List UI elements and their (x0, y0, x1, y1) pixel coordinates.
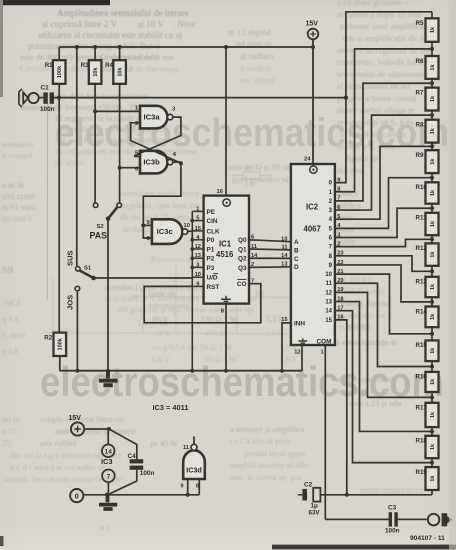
node ladder junction (430, 365, 434, 369)
15V supply terminal top (308, 29, 319, 40)
svg-text:3: 3 (196, 262, 199, 268)
svg-text:и 1: и 1 (100, 523, 111, 532)
resistor R2 100k (54, 333, 67, 356)
wire ladder link R5-R6 (431, 42, 433, 56)
node junction signal/ch0 riser (344, 96, 348, 100)
svg-text:10: 10 (195, 272, 201, 278)
svg-text:ʞ ∂,ट: ʞ ∂,ट (2, 347, 19, 356)
node ladder junction (430, 206, 434, 210)
wire C4 bottom to 0V (110, 470, 137, 494)
node ladder junction (430, 300, 434, 304)
IC1 ground symbol pin 8 (221, 296, 231, 302)
svg-text:S2: S2 (97, 224, 104, 230)
node ground rail junction (106, 369, 110, 373)
node latch output (179, 161, 183, 165)
wire to C4 top (109, 429, 137, 459)
wire jack to C1 (39, 97, 44, 99)
wire PE/CIN/P0-P3 tie to ground (191, 211, 193, 370)
wire rail to S1 SUS contact (76, 47, 78, 267)
wire R19 bottom lead (431, 490, 433, 495)
IC3 pin 7 power circle (102, 470, 115, 483)
svg-text:C4: C4 (128, 453, 137, 460)
svg-text:P0: P0 (207, 237, 215, 244)
svg-text:refied rezulta in cu: refied rezulta in cu (360, 486, 424, 495)
svg-text:1k: 1k (430, 64, 436, 71)
svg-text:R9: R9 (416, 152, 424, 159)
wire ladder link R8-R9 (431, 143, 433, 151)
output jack (428, 514, 440, 526)
wire CO to RST loop (144, 284, 261, 323)
svg-text:R6: R6 (416, 58, 424, 65)
svg-text:R10: R10 (416, 184, 428, 191)
svg-text:JOS: JOS (66, 295, 75, 310)
node ladder junction (430, 47, 434, 51)
capacitor C1 100n (43, 92, 47, 103)
node ground rail junction (224, 369, 228, 373)
svg-text:15: 15 (325, 318, 332, 324)
node ch15/C2/R19 (345, 493, 349, 497)
wire IC2 ch5 to ladder junction (335, 178, 432, 229)
IC1 left pin stubs, numbers and names (192, 210, 203, 212)
svg-text:IC3a: IC3a (144, 113, 161, 122)
svg-text:qɒ tnuz b: qɒ tnuz b (2, 214, 33, 223)
wire Q output to IC2 select (249, 240, 291, 242)
wire ladder link R7-R8 (431, 111, 433, 120)
svg-text:-s-ard, din csc: -s-ard, din csc (340, 311, 387, 320)
svg-text:13: 13 (195, 253, 201, 259)
resistor R15 (426, 340, 439, 361)
wire R2 to ground rail (59, 356, 61, 371)
svg-text:cu C4 alte să prim: cu C4 alte să prim (230, 437, 291, 446)
svg-text:R15: R15 (416, 342, 428, 349)
svg-text:C2: C2 (304, 482, 313, 489)
svg-text:R2: R2 (44, 334, 52, 341)
node preset tie (190, 238, 194, 242)
svg-text:24: 24 (304, 157, 311, 163)
ground symbol (bottom block) (99, 495, 117, 509)
svg-text:11: 11 (183, 445, 190, 451)
wire ladder link R15-R16 (431, 361, 433, 372)
resistor R5 (426, 18, 439, 42)
svg-text:PAS: PAS (90, 231, 108, 241)
svg-text:R5: R5 (416, 20, 424, 27)
svg-text:R4: R4 (105, 62, 113, 69)
resistor R16 (426, 372, 439, 392)
svg-text:14: 14 (325, 309, 332, 315)
svg-text:S1: S1 (84, 265, 92, 271)
wire IC2 pin12 to ground rail (301, 345, 303, 371)
svg-text:ƆʞƐ,Ɛ: ƆʞƐ,Ɛ (2, 298, 21, 307)
wire C3 to output jack (398, 518, 427, 520)
svg-text:1k: 1k (430, 251, 436, 258)
node ladder junction (430, 461, 434, 465)
wire R1 bottom lead (58, 84, 60, 98)
node rail/15V terminal (311, 45, 315, 49)
wire COM to C3 (325, 518, 388, 520)
wire IC2 ch4 to ladder junction (335, 146, 432, 219)
node ground rail junction (75, 369, 79, 373)
svg-text:10k: 10k (93, 66, 99, 76)
svg-text:IC3c: IC3c (157, 227, 173, 236)
svg-text:1k: 1k (430, 347, 436, 354)
wire ladder link R16-R17 (431, 392, 433, 403)
svg-text:R1: R1 (45, 62, 53, 69)
svg-text:Q3: Q3 (238, 265, 247, 272)
svg-text:63V: 63V (309, 510, 321, 517)
svg-text:1k: 1k (430, 220, 436, 227)
node ladder junction (430, 113, 434, 117)
node preset tie (190, 219, 194, 223)
svg-text:14: 14 (281, 253, 288, 259)
wire ladder link R10-R11 (431, 204, 433, 213)
svg-text:Circuitul este der mv: Circuitul este der mv (100, 52, 175, 62)
svg-text:1: 1 (196, 206, 199, 212)
wire IC3b output (173, 161, 181, 163)
IC2 power marker (310, 166, 317, 173)
svg-text:R12: R12 (416, 245, 428, 252)
wire S2 pivot to ground rail (107, 219, 109, 371)
svg-text:9: 9 (196, 281, 199, 287)
wire 15V supply to IC2 pin24 (312, 40, 314, 165)
IC U1: IC1 4516 body (204, 196, 249, 304)
svg-text:R14: R14 (416, 308, 428, 315)
svg-text:p r, d l ansă ă at cei: p r, d l ansă ă at cei audio-ar (10, 463, 105, 472)
svg-text:și cuprinsă între 2 V: și cuprinsă între 2 V (42, 20, 118, 30)
resistor R7 (426, 88, 439, 111)
wire IC2 ch12 to ladder junction (335, 292, 432, 397)
svg-text:PE: PE (207, 209, 216, 216)
svg-text:ru prindă, cum luni, po: ru prindă, cum luni, po (120, 200, 199, 210)
svg-text:12: 12 (325, 290, 332, 296)
svg-text:10k: 10k (117, 66, 123, 76)
svg-text:100n: 100n (140, 470, 155, 477)
svg-text:IC3d: IC3d (186, 466, 202, 475)
svg-text:este o amplificație de A: este o amplificație de A (342, 33, 426, 43)
wire ladder link R12-R13 (431, 266, 433, 277)
svg-text:1k: 1k (430, 127, 436, 134)
svg-text:R8: R8 (416, 122, 424, 129)
ghost table grid lines (46, 266, 312, 334)
svg-text:vece de Ta și D5 iar: vece de Ta și D5 iar (228, 163, 292, 172)
svg-text:R3: R3 (81, 62, 89, 69)
wire ch0 riser to ladder top (335, 12, 432, 183)
svg-text:IC3b: IC3b (143, 158, 160, 167)
svg-text:. Nive: . Nive (173, 19, 195, 29)
node preset tie (190, 266, 194, 270)
svg-text:2: 2 (135, 121, 138, 127)
wire IC3d pin8 to 0V (198, 479, 200, 495)
svg-text:C: C (294, 256, 299, 263)
svg-text:SЯ: SЯ (2, 266, 14, 276)
svg-text:atenuat un regulator de ten: atenuat un regulator de ten (337, 45, 431, 55)
svg-text:simplu conectat întru-un: simplu conectat întru-un (40, 414, 125, 424)
svg-text:12: 12 (294, 350, 300, 356)
IC3 pin 14 power circle (107, 429, 109, 445)
svg-text:P3: P3 (207, 265, 215, 272)
svg-text:9: 9 (181, 484, 184, 490)
svg-text:1k: 1k (430, 189, 436, 196)
resistor R9 (426, 150, 439, 173)
resistor R3 10k (89, 60, 102, 84)
svg-text:și 10 V: și 10 V (138, 19, 164, 29)
svg-text:Tensiunea de alim: Tensiunea de alim (150, 255, 211, 264)
svg-text:15V: 15V (69, 415, 82, 422)
wire IC2 ch3 to ladder junction (335, 115, 432, 210)
node 15V branch (107, 427, 111, 431)
svg-text:100n: 100n (385, 528, 400, 535)
wire IC2 ch14 to ladder junction (335, 311, 432, 463)
IC U2: IC2 4067 body (291, 164, 335, 345)
svg-text:1k: 1k (430, 95, 436, 102)
svg-text:Q1: Q1 (238, 246, 247, 253)
svg-text:a cu mare greutate –: a cu mare greutate – (337, 0, 409, 7)
resistor R4 10k (113, 60, 126, 84)
wire ladder link R9-R10 (431, 173, 433, 182)
svg-text:1k: 1k (430, 443, 436, 450)
svg-text:C1: C1 (41, 85, 50, 92)
svg-text:pe 45 W: pe 45 W (150, 439, 178, 448)
wire Q output to IC2 select (249, 257, 291, 259)
svg-text:toimisa lo: toimisa lo (2, 140, 33, 149)
wire IC2 ch13 to ladder junction (335, 302, 432, 432)
resistor R12 (426, 243, 439, 265)
svg-text:arte rulând: arte rulând (40, 439, 77, 448)
svg-text:n 15: n 15 (2, 427, 16, 436)
node R3/IC3a pin1 (93, 109, 97, 113)
wire 0V rail (83, 494, 199, 496)
svg-text:100k: 100k (58, 337, 64, 350)
svg-text:R19: R19 (416, 469, 428, 476)
ghost bleed-through resistor symbol (232, 172, 272, 179)
page edge artifacts (0, 0, 110, 5)
svg-text:arv. dirept: arv. dirept (240, 75, 275, 85)
0V terminal (70, 489, 83, 502)
wire R4 top lead (119, 47, 121, 60)
wire IC2 ch8 to ladder junction (335, 256, 432, 271)
svg-text:13: 13 (325, 300, 332, 306)
wire signal node down to R2 (58, 98, 60, 333)
svg-text:SUS: SUS (66, 250, 75, 266)
node IC3c input tie (141, 223, 145, 227)
node ground rail junction (190, 369, 194, 373)
svg-text:din nou: din nou (337, 165, 364, 175)
node ladder junction (430, 395, 434, 399)
svg-text:4067: 4067 (304, 225, 321, 234)
svg-text:R11: R11 (416, 215, 428, 222)
wire latch output to IC3c inputs (143, 163, 181, 238)
resistor R17 (426, 403, 439, 427)
svg-text:B: B (294, 247, 299, 254)
capacitor C3 100n (389, 512, 392, 526)
wire rail to IC1 pin16 (225, 47, 227, 196)
gate IC3b NAND (140, 151, 167, 174)
svg-text:al radiatо: al radiatо (240, 51, 274, 61)
svg-text:m 12 depind: m 12 depind (228, 27, 272, 37)
node ladder junction (430, 332, 434, 336)
wire ladder link R17-R18 (431, 427, 433, 436)
node ground rail junction (280, 369, 284, 373)
svg-text:904107 - 11: 904107 - 11 (410, 535, 445, 542)
wire IC2 ch7 to ladder junction (335, 239, 432, 246)
capacitor C2 1u/63V (298, 494, 303, 496)
svg-text:o ɒl эb: o ɒl эb (2, 181, 24, 190)
node ladder junction (430, 81, 434, 85)
svg-text:CIN: CIN (207, 218, 218, 225)
resistor R10 (426, 182, 439, 203)
wire INH to ground rail (282, 323, 291, 371)
svg-text:Q0: Q0 (238, 237, 247, 244)
svg-text:1k: 1k (430, 411, 436, 418)
resistor R1 100k (53, 60, 66, 84)
svg-text:amplificatoarele se afin: amplificatoarele se afin (230, 461, 309, 470)
svg-text:R13: R13 (416, 279, 428, 286)
node R4/IC3b pin6 (118, 166, 122, 170)
wire IC3c out to IC1 CLK (188, 230, 193, 232)
wire to IC3a input pin1 (95, 110, 140, 112)
svg-text:C3: C3 (388, 505, 397, 512)
svg-text:anzistă, fin u dustre căru: anzistă, fin u dustre căruse detaliile (4, 475, 122, 484)
wire R3 top lead (94, 47, 96, 60)
switch arm S1 (80, 271, 94, 279)
svg-text:IC2: IC2 (306, 203, 319, 212)
resistor R14 (426, 307, 439, 328)
svg-text:Amplitudinea semnalului de int: Amplitudinea semnalului de intrare (57, 9, 189, 19)
wire JOS contact to ground rail (76, 291, 78, 371)
node ladder junction (430, 237, 434, 241)
resistor R8 (426, 120, 439, 143)
svg-text:ort m: ort m (2, 415, 20, 424)
svg-text:1k: 1k (430, 313, 436, 320)
wire R4 to S2 contact (119, 84, 121, 203)
svg-text:primește unui amplificat: primește unui amplificat (340, 21, 427, 31)
node rail/R3 (93, 45, 97, 49)
svg-text:8: 8 (196, 484, 199, 490)
wire IC2 ch6 to ladder junction (335, 208, 432, 237)
svg-text:1k: 1k (430, 475, 436, 482)
node rail/IC1 supply (224, 45, 228, 49)
svg-text:5: 5 (196, 216, 199, 222)
wire IC3d pin9 to 0V (187, 479, 189, 495)
svg-text:P1: P1 (207, 246, 215, 253)
node ladder junction (430, 429, 434, 433)
svg-text:iț nasiqod: iț nasiqod (2, 151, 33, 160)
node preset tie (190, 247, 194, 251)
wire R1 top lead (58, 47, 60, 60)
svg-text:măsurătoare: măsurătoare (148, 301, 189, 310)
gate IC3d (spare, vertical) (183, 450, 205, 479)
svg-text:INH: INH (294, 320, 305, 327)
svg-text:10: 10 (184, 223, 190, 229)
node signal/riser (344, 96, 348, 100)
wire IC1 pin8 to ground rail (225, 304, 227, 371)
svg-text:U/D: U/D (207, 275, 218, 282)
svg-text:1μ: 1μ (311, 503, 318, 510)
node 0V/IC3d input (186, 493, 190, 497)
svg-text:IC3 = 4011: IC3 = 4011 (153, 403, 189, 412)
svg-text:15: 15 (195, 226, 201, 232)
svg-text:11: 11 (281, 245, 287, 251)
svg-text:R7: R7 (416, 89, 424, 96)
wire ladder link R18-R19 (431, 458, 433, 467)
node ladder junction (430, 144, 434, 148)
node ladder junction (430, 269, 434, 273)
svg-text:IC1: IC1 (219, 240, 232, 249)
wire ground rail (60, 370, 302, 372)
IC2 ground symbol pin 12 (298, 338, 307, 343)
wire C2 to R19 bottom (320, 494, 432, 496)
wire COM to C3 (324, 345, 326, 519)
svg-text:electroschematics.com: electroschematics.com (55, 111, 449, 155)
svg-text:2.2k: 2.2k (245, 182, 256, 188)
wire S1 pivot to IC1 U/D (94, 277, 193, 279)
svg-text:secundar a după. El este: secundar a după. El este (337, 9, 422, 19)
svg-text:A: A (294, 239, 299, 246)
wire R3 to S2 contact (94, 84, 96, 203)
resistor R6 (426, 56, 439, 79)
wire IC2 ch15 to ladder bottom (335, 320, 347, 495)
svg-text:il secțiun: il secțiun (240, 63, 272, 73)
svg-text:13: 13 (281, 262, 287, 268)
wire IC2 ch1 to ladder junction (335, 49, 432, 192)
switch S1 SUS/JOS (76, 267, 81, 272)
wire ladder link R6-R7 (431, 79, 433, 88)
wire Q output to IC2 select (249, 266, 291, 269)
svg-text:10: 10 (325, 272, 332, 278)
wire IC3a out to IC3b pin5 (cross) (135, 117, 181, 156)
resistor R11 (426, 213, 439, 235)
svg-text:7: 7 (107, 473, 111, 480)
wire ladder link R13-R14 (431, 297, 433, 306)
svg-text:6-amf), dar csc: 6-amf), dar csc (340, 299, 390, 308)
node junction C1/R1/R2 (57, 96, 61, 100)
svg-text:CO: CO (237, 281, 247, 288)
svg-text:0: 0 (75, 493, 79, 500)
node preset tie (190, 256, 194, 260)
node S1 pivot (91, 276, 96, 281)
svg-text:1k: 1k (430, 158, 436, 165)
wire R5 top lead (431, 12, 433, 18)
svg-text:12: 12 (195, 244, 201, 250)
svg-text:16: 16 (217, 189, 224, 195)
switch S2 PAS (93, 203, 98, 208)
svg-text:D: D (294, 264, 299, 271)
svg-text:R17: R17 (416, 405, 428, 412)
wire ladder link R14-R15 (431, 327, 433, 340)
svg-text:CLK: CLK (207, 228, 221, 235)
svg-text:lui, în loturi: lui, în loturi (345, 287, 385, 296)
resistor R18 (426, 436, 439, 458)
wire IC2 ch11 to ladder junction (335, 283, 432, 366)
input jack J1 (19, 89, 22, 107)
svg-text:10: 10 (281, 237, 287, 243)
svg-text:RST: RST (207, 284, 220, 291)
svg-text:1k: 1k (430, 283, 436, 290)
svg-text:asta, în curent pe, p.a: asta, în curent pe, p.a (230, 473, 301, 482)
switch arm S2 (108, 207, 118, 219)
node S2 pivot (106, 216, 111, 221)
svg-text:25,: 25, (2, 439, 12, 448)
svg-text:Q2: Q2 (238, 256, 247, 263)
svg-text:R16: R16 (416, 374, 428, 381)
svg-text:m 01 эɿtni: m 01 эɿtni (2, 203, 36, 212)
svg-text:ʞ S,S: ʞ S,S (2, 315, 19, 324)
ground symbol (main rail) (99, 371, 118, 386)
svg-text:15V: 15V (306, 21, 319, 28)
svg-text:4516: 4516 (216, 250, 234, 259)
svg-text:IC3: IC3 (101, 457, 113, 466)
svg-text:termenului de alimentare: termenului de alimentare (337, 69, 425, 79)
svg-text:R18: R18 (416, 438, 428, 445)
